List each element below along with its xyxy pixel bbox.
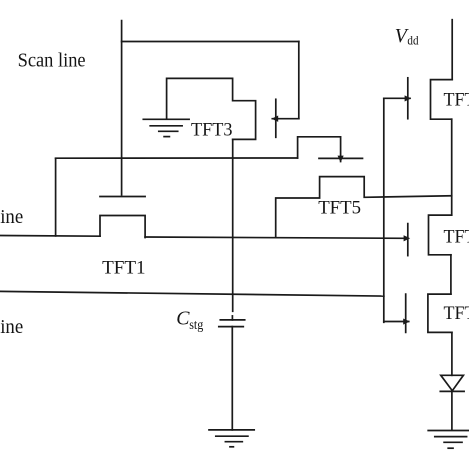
wire center node vertical down to storage capacitor — [232, 139, 234, 311]
transistor TFT2 gate bar — [407, 78, 409, 119]
transistor TFT3 gate bar — [275, 99, 277, 137]
svg-text:TFT6: TFT6 — [444, 303, 469, 324]
wire rail to OLED anode — [451, 332, 453, 375]
wire scan-line horizontal branch — [122, 41, 299, 43]
transistor TFT4 channel jog — [429, 215, 452, 255]
wire rail between TFT2 and TFT4 — [451, 119, 453, 215]
svg-text:ine: ine — [0, 316, 23, 338]
transistor TFT5 channel path — [276, 177, 452, 237]
wire data line bus left segment — [0, 235, 100, 238]
transistor TFT6 channel jog — [428, 294, 452, 332]
transistor TFT5 gate bar — [319, 157, 363, 159]
wire left branch vertical — [55, 158, 57, 236]
ground below OLED — [428, 431, 469, 449]
svg-text:TFT1: TFT1 — [102, 258, 146, 279]
label Cstg — [176, 308, 203, 332]
transistor TFT2 channel jog — [431, 80, 453, 120]
transistor TFT4 gate bar — [407, 224, 409, 256]
transistor TFT1 channel bump — [100, 216, 145, 238]
svg-text:ine: ine — [0, 206, 23, 228]
svg-text:TFT4: TFT4 — [444, 227, 469, 248]
transistor TFT3 channel staircase — [167, 78, 256, 139]
svg-text:TFT5: TFT5 — [318, 197, 361, 218]
svg-text:TFT3: TFT3 — [191, 120, 233, 141]
ground at TFT3 source — [143, 119, 189, 136]
ground below C_stg — [209, 430, 254, 447]
wire control line horizontal (to TFT5 gate jog) — [56, 157, 298, 159]
wire rail between TFT4 and TFT6 — [450, 255, 452, 294]
transistor TFT6 gate bar — [405, 294, 407, 332]
svg-text:dd: dd — [407, 34, 419, 48]
svg-text:Scan line: Scan line — [18, 49, 86, 71]
transistor TFT1 gate bar — [100, 196, 145, 198]
wire Vdd rail — [451, 20, 453, 80]
wire data line bus right segment to TFT4 gate — [145, 237, 404, 238]
svg-text:TFT2: TFT2 — [444, 89, 469, 110]
wire capacitor bottom to ground — [231, 327, 233, 430]
transistor TFT3 gate lead with arrow — [272, 116, 299, 122]
transistor TFT2 gate lead with arrow — [384, 95, 411, 101]
diode OLED — [440, 375, 464, 430]
wire scan branch drop to TFT3 gate — [298, 42, 300, 119]
wire emission control line (left edge to gate feed vertical) — [0, 291, 384, 296]
transistor TFT4 gate arrow — [404, 235, 411, 241]
transistor TFT6 gate lead with arrow — [384, 319, 410, 325]
capacitor C_stg — [219, 316, 245, 327]
svg-text:stg: stg — [189, 317, 203, 332]
svg-text:C: C — [176, 308, 190, 330]
label Vdd — [395, 25, 419, 48]
wire scan-line vertical (scan net down to TFT1 gate) — [121, 21, 123, 195]
transistor TFT5 gate jog lead with arrow — [298, 137, 344, 162]
wire gate feed vertical for TFT2 and TFT6 — [383, 98, 385, 322]
